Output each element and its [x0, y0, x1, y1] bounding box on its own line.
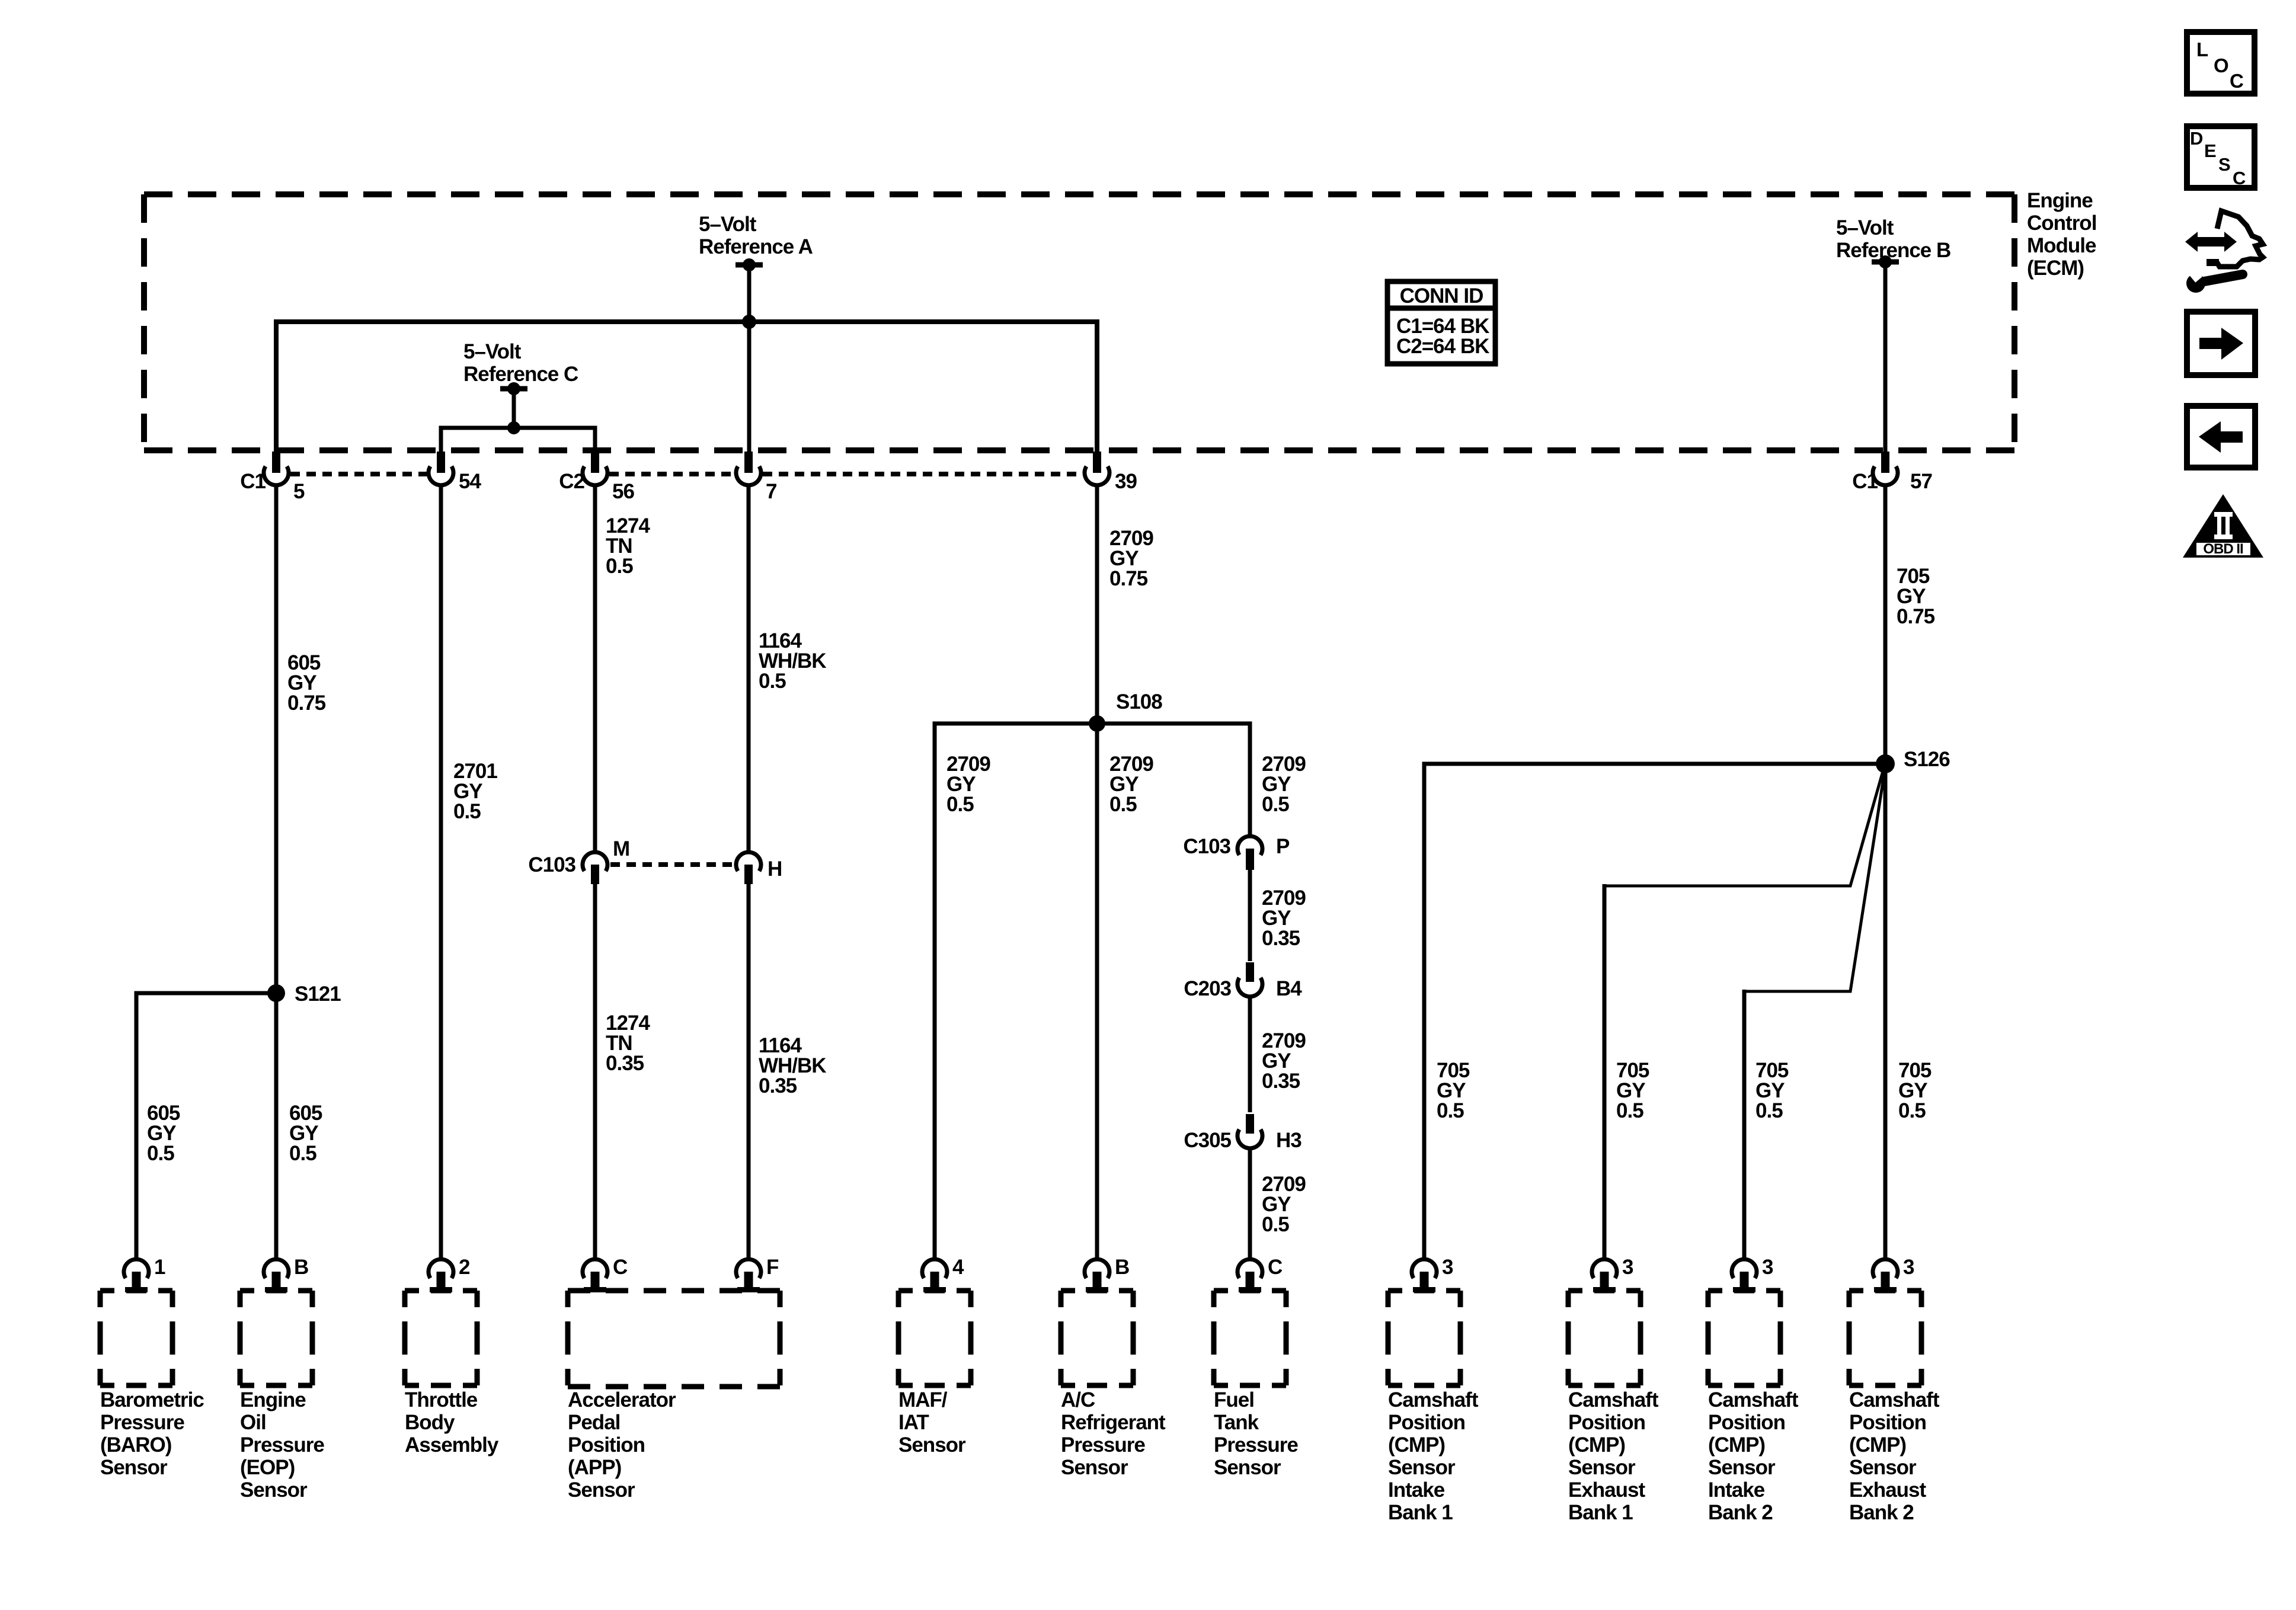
wire label 1274 TN 0.35 — [606, 1012, 650, 1075]
svg-text:B: B — [1115, 1256, 1129, 1279]
connector C2 pin 7 — [736, 452, 776, 503]
label CMP sensor exhaust bank 1 — [1568, 1388, 1659, 1524]
connector C305 pin H3 — [1184, 1114, 1302, 1152]
svg-text:Bank 2: Bank 2 — [1708, 1501, 1773, 1524]
wire label 2709 GY 0.35 — [1262, 886, 1306, 950]
svg-text:54: 54 — [459, 470, 481, 493]
svg-text:Position: Position — [1708, 1411, 1785, 1434]
svg-text:5–Volt: 5–Volt — [699, 213, 757, 236]
dashed connector row line 7 to 39 — [763, 472, 1083, 476]
ECM module dashed box — [144, 194, 2014, 450]
CMP sensor exhaust bank 2 dashed box — [1849, 1291, 1921, 1385]
wire 5V reference A bus — [276, 322, 1097, 452]
label BARO sensor — [100, 1388, 204, 1479]
wire tap B to pin 57 — [1884, 262, 1888, 452]
svg-text:3: 3 — [1442, 1256, 1453, 1279]
svg-text:3: 3 — [1903, 1256, 1914, 1279]
ECM label Engine Control Module — [2027, 189, 2096, 280]
svg-text:(ECM): (ECM) — [2027, 257, 2084, 280]
wire S108 branch right to fuel column — [1097, 724, 1250, 834]
svg-text:Throttle: Throttle — [405, 1388, 478, 1411]
svg-text:56: 56 — [612, 480, 634, 503]
svg-text:(CMP): (CMP) — [1849, 1433, 1906, 1457]
connector pin 3 at CMP sensor intake bank 2 — [1732, 1256, 1773, 1292]
svg-text:Pedal: Pedal — [568, 1411, 620, 1434]
label CMP sensor intake bank 2 — [1708, 1388, 1799, 1524]
svg-text:S126: S126 — [1904, 748, 1950, 771]
svg-text:C1: C1 — [1852, 470, 1878, 493]
wire label 705 GY 0.5 (4) — [1898, 1059, 1932, 1122]
wire S126 branch to CMP exhaust bank 1 — [1604, 769, 1884, 886]
wire 1274 TN 0.5 pin 56 to C103 M — [593, 487, 597, 850]
svg-text:C: C — [2230, 70, 2243, 92]
svg-text:Sensor: Sensor — [1214, 1456, 1281, 1479]
svg-text:Sensor: Sensor — [1388, 1456, 1456, 1479]
wire label 705 GY 0.5 (1) — [1437, 1059, 1470, 1122]
svg-text:0.5: 0.5 — [1262, 793, 1289, 816]
svg-text:Sensor: Sensor — [100, 1456, 168, 1479]
svg-text:Exhaust: Exhaust — [1568, 1478, 1645, 1502]
svg-text:C103: C103 — [1183, 835, 1230, 858]
svg-text:Engine: Engine — [2027, 189, 2093, 212]
connector pin 3 at CMP sensor exhaust bank 2 — [1873, 1256, 1914, 1292]
svg-text:P: P — [1276, 835, 1290, 858]
svg-text:Sensor: Sensor — [1061, 1456, 1128, 1479]
svg-text:Camshaft: Camshaft — [1568, 1388, 1659, 1411]
svg-text:Position: Position — [1388, 1411, 1465, 1434]
svg-text:0.75: 0.75 — [1109, 567, 1148, 590]
icon DESC — [2187, 126, 2255, 188]
svg-text:Tank: Tank — [1214, 1411, 1259, 1434]
EOP sensor dashed box — [240, 1291, 312, 1385]
CMP sensor exhaust bank 1 dashed box — [1568, 1291, 1641, 1385]
splice S121 — [267, 982, 341, 1006]
wire 705 GY 0.75 pin 57 to S126 — [1884, 487, 1888, 764]
svg-text:Position: Position — [1568, 1411, 1645, 1434]
svg-text:(EOP): (EOP) — [240, 1456, 295, 1479]
svg-text:S: S — [2218, 154, 2230, 175]
label 5-Volt Reference B — [1836, 216, 1950, 262]
svg-text:C203: C203 — [1184, 977, 1231, 1000]
icon back arrow — [2187, 406, 2255, 468]
svg-text:7: 7 — [766, 480, 776, 503]
svg-text:Engine: Engine — [240, 1388, 306, 1411]
connector C1 pin 54 — [428, 452, 481, 493]
svg-text:O: O — [2214, 55, 2228, 76]
svg-text:0.5: 0.5 — [453, 800, 481, 823]
wire label 2709 GY 0.5 (fuel) — [1262, 753, 1306, 816]
label 5-Volt Reference A — [699, 213, 813, 258]
svg-text:Fuel: Fuel — [1214, 1388, 1254, 1411]
svg-text:Sensor: Sensor — [240, 1478, 308, 1502]
wire 605 GY 0.75 pin5 to S121 to EOP — [274, 487, 279, 1257]
svg-text:Intake: Intake — [1388, 1478, 1445, 1502]
svg-text:Position: Position — [1849, 1411, 1926, 1434]
svg-text:C: C — [1268, 1256, 1283, 1279]
svg-text:5: 5 — [293, 480, 305, 503]
label MAF/IAT sensor — [898, 1388, 966, 1457]
svg-text:Reference A: Reference A — [699, 235, 813, 258]
power tap 5-Volt Reference A — [736, 258, 763, 271]
svg-text:F: F — [766, 1256, 779, 1279]
dashed connector row line C1 5 to 54 — [290, 472, 427, 476]
connector C103 pin M — [528, 837, 629, 884]
label APP sensor — [568, 1388, 676, 1502]
label 5-Volt Reference C — [463, 340, 578, 386]
svg-text:Sensor: Sensor — [568, 1478, 635, 1502]
label fuel tank pressure sensor — [1214, 1388, 1298, 1479]
label EOP sensor — [240, 1388, 324, 1502]
svg-text:Pressure: Pressure — [240, 1433, 324, 1457]
svg-text:B: B — [294, 1256, 308, 1279]
svg-text:D: D — [2190, 128, 2203, 149]
wire 2701 GY 0.5 pin 54 to throttle body — [439, 487, 443, 1257]
label A/C pressure sensor — [1061, 1388, 1166, 1479]
svg-text:Bank 2: Bank 2 — [1849, 1501, 1914, 1524]
svg-text:Pressure: Pressure — [1214, 1433, 1298, 1457]
svg-text:(CMP): (CMP) — [1708, 1433, 1765, 1457]
wire CMP intake bank 2 drop — [1742, 990, 1747, 1257]
svg-text:C2=64 BK: C2=64 BK — [1396, 335, 1489, 358]
fuel tank pressure sensor dashed box — [1214, 1291, 1286, 1385]
svg-text:Intake: Intake — [1708, 1478, 1765, 1502]
svg-text:MAF/: MAF/ — [898, 1388, 948, 1411]
svg-text:C: C — [2233, 168, 2246, 188]
svg-text:Pressure: Pressure — [1061, 1433, 1145, 1457]
wire label 1164 WH/BK 0.5 — [759, 629, 826, 693]
svg-text:2: 2 — [459, 1256, 470, 1279]
wire label 1274 TN 0.5 — [606, 514, 650, 578]
wire S126 down to CMP exhaust bank 2 — [1884, 764, 1888, 1257]
wire S126 branch to CMP intake bank 1 — [1424, 764, 1885, 1257]
svg-text:57: 57 — [1910, 470, 1932, 493]
wire label 605 GY 0.75 — [287, 651, 326, 715]
svg-text:Exhaust: Exhaust — [1849, 1478, 1926, 1502]
dashed connector row line C2 56 to 7 — [609, 472, 734, 476]
svg-text:Reference B: Reference B — [1836, 239, 1950, 262]
connector pin 1 at BARO sensor — [124, 1256, 165, 1292]
svg-text:Refrigerant: Refrigerant — [1061, 1411, 1166, 1434]
svg-text:Position: Position — [568, 1433, 645, 1457]
wire S126 branch to CMP intake bank 2 — [1744, 770, 1885, 991]
wire bus to pin 7 — [747, 322, 752, 452]
svg-text:Sensor: Sensor — [1568, 1456, 1636, 1479]
power tap 5-Volt Reference B — [1872, 255, 1899, 268]
wire label 2701 GY 0.5 — [453, 760, 497, 823]
wire label 2709 GY 0.5 (MAF) — [946, 753, 990, 816]
svg-text:0.35: 0.35 — [1262, 1070, 1300, 1093]
connector pin C at APP sensor C — [583, 1256, 628, 1292]
svg-text:C305: C305 — [1184, 1129, 1231, 1152]
svg-text:Barometric: Barometric — [100, 1388, 204, 1411]
svg-text:0.75: 0.75 — [287, 692, 326, 715]
svg-text:0.5: 0.5 — [1262, 1213, 1289, 1236]
wire S108 down to A/C sensor — [1095, 724, 1099, 1257]
APP sensor dashed box — [568, 1291, 780, 1387]
svg-text:0.5: 0.5 — [946, 793, 974, 816]
node junction on C bus — [507, 421, 520, 434]
icon LOC — [2187, 32, 2255, 94]
svg-text:Assembly: Assembly — [405, 1433, 499, 1457]
svg-text:0.5: 0.5 — [1616, 1099, 1643, 1122]
svg-text:H: H — [768, 857, 782, 881]
svg-text:Module: Module — [2027, 234, 2096, 257]
connector C1 pin 5 — [240, 452, 305, 503]
svg-text:0.5: 0.5 — [1898, 1099, 1926, 1122]
svg-text:Control: Control — [2027, 212, 2096, 235]
wire S121 branch to BARO — [136, 993, 276, 1257]
wire CMP exhaust bank 1 drop — [1603, 884, 1607, 1257]
svg-text:H3: H3 — [1276, 1129, 1302, 1152]
svg-text:L: L — [2196, 39, 2208, 60]
svg-text:3: 3 — [1622, 1256, 1633, 1279]
connector pin 3 at CMP sensor intake bank 1 — [1412, 1256, 1453, 1292]
wire label 2709 GY 0.5 (below H3) — [1262, 1173, 1306, 1236]
CMP sensor intake bank 1 dashed box — [1388, 1291, 1460, 1385]
svg-text:M: M — [613, 837, 629, 860]
svg-text:0.5: 0.5 — [606, 555, 633, 578]
node junction on bus at pin 7 — [742, 315, 756, 329]
wire label 2709 GY 0.75 — [1109, 527, 1153, 590]
svg-text:C1: C1 — [240, 470, 266, 493]
svg-text:(CMP): (CMP) — [1388, 1433, 1445, 1457]
power tap 5-Volt Reference C — [500, 382, 527, 395]
connector C2 pin 56 — [559, 452, 634, 503]
wire 1164 WH/BK 0.35 C103 H to APP F — [747, 884, 751, 1257]
wire label 705 GY 0.5 (2) — [1616, 1059, 1649, 1122]
connector pin C at fuel tank pressure sensor — [1237, 1256, 1283, 1292]
svg-text:Bank 1: Bank 1 — [1568, 1501, 1633, 1524]
wire label 2709 GY 0.5 (A/C) — [1109, 753, 1153, 816]
wire label 705 GY 0.5 (3) — [1755, 1059, 1789, 1122]
wire tap C stub — [512, 389, 516, 428]
wire 1274 TN 0.35 C103 M to APP C — [593, 884, 597, 1257]
MAF/IAT sensor dashed box — [898, 1291, 971, 1385]
svg-text:5–Volt: 5–Volt — [1836, 216, 1894, 239]
connector pin 4 at MAF/IAT sensor — [922, 1256, 964, 1292]
svg-text:39: 39 — [1115, 470, 1137, 493]
svg-text:Camshaft: Camshaft — [1388, 1388, 1479, 1411]
wire label 605 GY 0.5 (EOP) — [289, 1102, 322, 1165]
svg-text:Bank 1: Bank 1 — [1388, 1501, 1453, 1524]
svg-text:IAT: IAT — [898, 1411, 929, 1434]
svg-text:S121: S121 — [295, 982, 341, 1006]
wire label 2709 GY 0.35 (second) — [1262, 1029, 1306, 1093]
svg-text:A/C: A/C — [1061, 1388, 1095, 1411]
svg-text:5–Volt: 5–Volt — [463, 340, 522, 363]
throttle body dashed box — [405, 1291, 477, 1385]
connector pin 2 at throttle body — [428, 1256, 470, 1292]
svg-text:(CMP): (CMP) — [1568, 1433, 1625, 1457]
splice S108 — [1089, 690, 1162, 732]
svg-text:0.5: 0.5 — [1755, 1099, 1783, 1122]
CONN ID table — [1385, 281, 1498, 364]
svg-text:0.35: 0.35 — [759, 1074, 797, 1097]
A/C pressure sensor dashed box — [1061, 1291, 1133, 1385]
svg-text:Camshaft: Camshaft — [1849, 1388, 1940, 1411]
svg-text:0.5: 0.5 — [289, 1142, 316, 1165]
svg-text:B4: B4 — [1276, 977, 1302, 1000]
wire 1164 WH/BK 0.5 pin 7 to C103 H — [747, 487, 751, 850]
svg-text:E: E — [2204, 140, 2216, 161]
svg-text:Camshaft: Camshaft — [1708, 1388, 1799, 1411]
svg-text:Accelerator: Accelerator — [568, 1388, 676, 1411]
BARO sensor dashed box — [100, 1291, 172, 1385]
wire tap A stub — [747, 265, 752, 322]
connector C2 pin 39 — [1085, 452, 1137, 493]
icon vehicle diagnostic (arrows, outline, wrench) — [2185, 211, 2263, 293]
wire label 1164 WH/BK 0.35 — [759, 1034, 826, 1097]
svg-text:C2: C2 — [559, 470, 584, 493]
svg-text:S108: S108 — [1116, 690, 1162, 713]
svg-text:0.5: 0.5 — [759, 670, 786, 693]
svg-text:Pressure: Pressure — [100, 1411, 184, 1434]
wire 2709 GY 0.35 P to B4 — [1248, 870, 1252, 961]
svg-text:Body: Body — [405, 1411, 455, 1434]
svg-text:(APP): (APP) — [568, 1456, 621, 1479]
icon OBD II — [2183, 494, 2263, 558]
svg-text:Oil: Oil — [240, 1411, 266, 1434]
icon forward arrow — [2187, 312, 2255, 375]
wire label 605 GY 0.5 (BARO) — [147, 1102, 180, 1165]
connector C203 pin B4 — [1184, 962, 1302, 1000]
svg-text:C103: C103 — [528, 853, 575, 876]
svg-text:0.5: 0.5 — [1437, 1099, 1464, 1122]
wire 2709 GY 0.5 H3 to fuel sensor — [1248, 1150, 1252, 1257]
svg-text:3: 3 — [1762, 1256, 1773, 1279]
svg-text:Sensor: Sensor — [1708, 1456, 1776, 1479]
svg-text:OBD II: OBD II — [2203, 541, 2243, 557]
connector C1 pin 57 — [1852, 452, 1932, 493]
connector pin B at A/C pressure sensor — [1085, 1256, 1129, 1292]
svg-text:Sensor: Sensor — [1849, 1456, 1917, 1479]
connector C103 pin P — [1183, 835, 1290, 870]
connector pin 3 at CMP sensor exhaust bank 1 — [1592, 1256, 1633, 1292]
svg-text:CONN ID: CONN ID — [1400, 284, 1483, 308]
svg-text:C: C — [613, 1256, 628, 1279]
wire 5V reference C bus — [441, 428, 595, 452]
connector pin F at APP sensor F — [736, 1256, 779, 1292]
connector C103 pin H — [736, 852, 782, 884]
label throttle body — [405, 1388, 499, 1457]
CMP sensor intake bank 2 dashed box — [1708, 1291, 1780, 1385]
label CMP sensor exhaust bank 2 — [1849, 1388, 1940, 1524]
wire S108 branch left to MAF — [935, 724, 1097, 1257]
dashed line C103 M to H — [610, 862, 734, 867]
svg-text:Reference C: Reference C — [463, 363, 578, 386]
connector pin B at EOP sensor — [264, 1256, 308, 1292]
wire 2709 GY 0.75 pin 39 to S108 — [1095, 487, 1099, 724]
wire label 705 GY 0.75 — [1897, 565, 1935, 628]
svg-text:0.5: 0.5 — [147, 1142, 174, 1165]
svg-text:0.75: 0.75 — [1897, 605, 1935, 628]
svg-text:Sensor: Sensor — [898, 1433, 966, 1457]
wire 2709 GY 0.35 B4 to H3 — [1248, 998, 1252, 1112]
svg-text:0.5: 0.5 — [1109, 793, 1137, 816]
svg-text:4: 4 — [952, 1256, 964, 1279]
svg-text:0.35: 0.35 — [1262, 927, 1300, 950]
svg-text:1: 1 — [154, 1256, 165, 1279]
svg-text:0.35: 0.35 — [606, 1052, 644, 1075]
svg-text:(BARO): (BARO) — [100, 1433, 171, 1457]
splice S126 — [1876, 748, 1950, 773]
label CMP sensor intake bank 1 — [1388, 1388, 1479, 1524]
